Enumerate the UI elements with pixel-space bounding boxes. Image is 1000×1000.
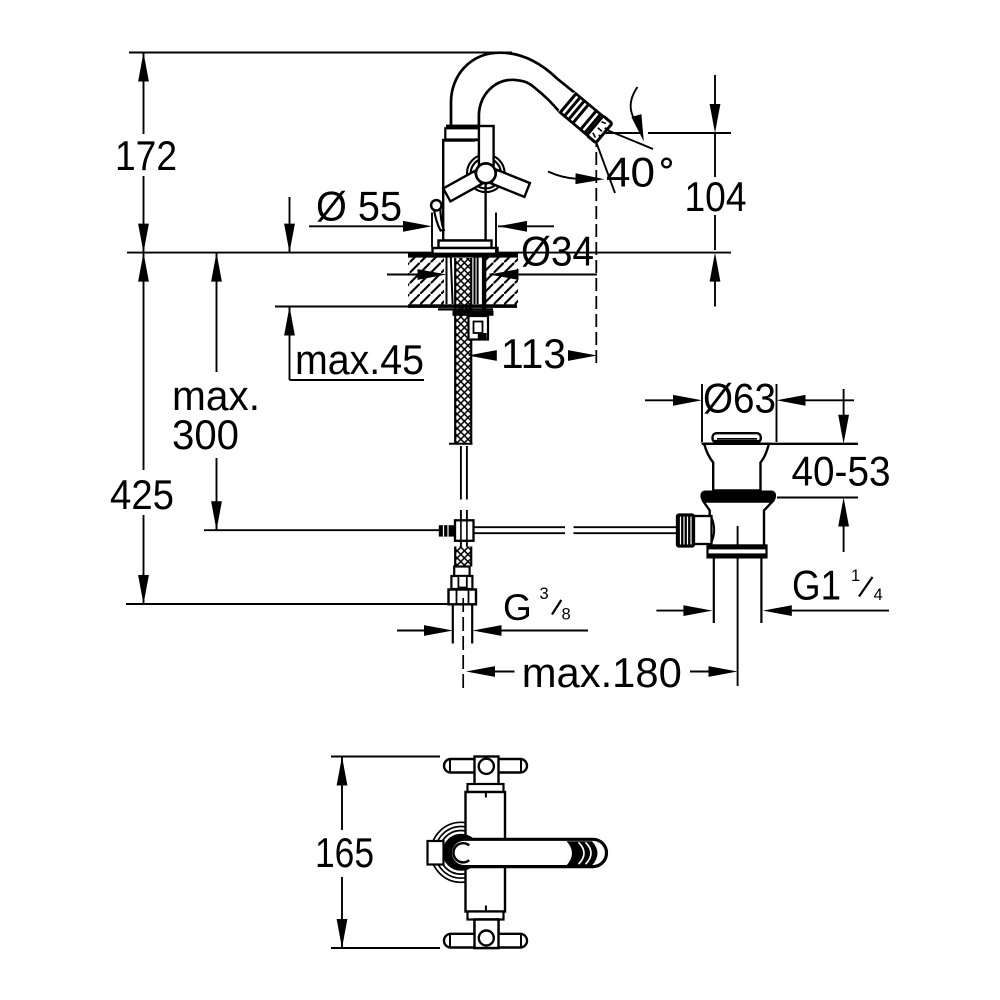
- G3/8 nut: [449, 590, 477, 605]
- G3/8 pipe: [452, 604, 454, 643]
- svg-text:165: 165: [315, 830, 374, 876]
- angle 40deg arc arrow: [631, 87, 638, 120]
- svg-text:172: 172: [115, 133, 177, 179]
- hose end fittings: [454, 567, 469, 577]
- aerator outlet: [558, 92, 612, 143]
- pull rod: [474, 526, 566, 528]
- O55 extension lines: [431, 213, 433, 248]
- deck hatch left: [408, 258, 444, 305]
- flexible hose braided upper: [455, 258, 471, 444]
- svg-text:104: 104: [685, 174, 747, 220]
- pull rod coupler: [439, 525, 455, 536]
- top view cross bar lower: [444, 934, 527, 948]
- deck bottom edge: [408, 304, 517, 308]
- dimension max.180: [466, 666, 495, 677]
- dimension max.45: [289, 197, 291, 253]
- ref line deck underside: [275, 306, 409, 308]
- dimension G1 1/4: [656, 610, 684, 612]
- svg-text:Ø34: Ø34: [521, 229, 594, 275]
- handle center boss: [476, 163, 496, 183]
- body collar: [445, 128, 479, 139]
- base plate upper: [439, 241, 492, 249]
- dimension 104: [714, 75, 716, 107]
- dimension 113: [468, 350, 497, 361]
- top view collar lower: [468, 912, 504, 920]
- svg-text:300: 300: [172, 412, 239, 458]
- locknut under deck: [438, 308, 493, 310]
- dimension 172 line: [143, 53, 145, 135]
- dimension 425 line: [143, 253, 145, 470]
- ref line mounting surface: [127, 252, 731, 254]
- drain rubber seal: [701, 491, 777, 502]
- handle spoke lower-right: [491, 170, 530, 197]
- handle spoke up: [479, 126, 494, 168]
- dimension G3/8: [397, 630, 425, 632]
- svg-text:max.180: max.180: [522, 650, 682, 696]
- svg-text:40: 40: [606, 150, 655, 196]
- svg-text:3: 3: [540, 585, 549, 603]
- svg-text:max.45: max.45: [295, 337, 424, 383]
- centerline faucet bottom: [462, 598, 464, 688]
- extension line outlet dashed: [595, 134, 597, 366]
- svg-text:8: 8: [562, 606, 571, 624]
- top view spout tube: [451, 839, 607, 866]
- svg-text:Ø63: Ø63: [703, 376, 776, 422]
- svg-text:4: 4: [874, 586, 883, 604]
- angle 40deg lines: [590, 123, 653, 149]
- faucet body: [443, 140, 485, 241]
- handle spoke lower-left: [443, 171, 481, 201]
- drain centerline: [737, 558, 739, 686]
- drain collar: [708, 545, 767, 557]
- dimension 40-53: [843, 389, 845, 415]
- drain pop-up cap: [713, 433, 761, 442]
- drain body: [704, 502, 773, 549]
- rod level line left: [204, 529, 439, 531]
- dimension max.300 line: [216, 253, 218, 372]
- top view escutcheon arcs: [431, 822, 491, 882]
- base plate lower (escutcheon): [433, 248, 498, 254]
- svg-text:425: 425: [110, 472, 174, 518]
- ref line outlet level: [598, 132, 640, 134]
- dimension 165: [331, 756, 440, 758]
- svg-text:G: G: [503, 587, 532, 628]
- svg-text:Ø 55: Ø 55: [316, 184, 402, 230]
- hose inner tube: [460, 446, 462, 500]
- top view body: [466, 792, 506, 912]
- svg-text:40-53: 40-53: [792, 449, 891, 495]
- top view lever: [428, 841, 444, 865]
- top view spout inner cap: [453, 843, 472, 862]
- drain knurled knob: [677, 515, 694, 547]
- drain tailpipe: [713, 558, 715, 623]
- top view aerator bands: [567, 841, 598, 865]
- body joint line: [443, 140, 475, 142]
- hose below coupler: [460, 541, 462, 547]
- deck top edge: [408, 253, 518, 257]
- svg-text:1: 1: [851, 567, 860, 585]
- top view hub lower: [475, 920, 499, 949]
- ref line top (spout height): [129, 52, 512, 54]
- swivel arc arrow: [548, 172, 577, 179]
- top view cross bar upper: [444, 759, 527, 773]
- top view spout joint ring: [446, 837, 477, 868]
- drain flange: [704, 444, 770, 491]
- deck hatch right: [486, 258, 518, 305]
- top view hub upper: [475, 757, 499, 786]
- drain knob connector: [694, 516, 712, 544]
- check valve fitting: [469, 316, 489, 340]
- drain lever: [434, 207, 444, 231]
- svg-text:113: 113: [501, 331, 566, 377]
- svg-text:G1: G1: [792, 563, 841, 609]
- ref line hose end: [126, 603, 449, 605]
- threaded shank in deck: [446, 258, 448, 305]
- top view collar upper: [468, 784, 504, 792]
- handle hub ring: [467, 155, 505, 193]
- spout tube: [451, 53, 575, 125]
